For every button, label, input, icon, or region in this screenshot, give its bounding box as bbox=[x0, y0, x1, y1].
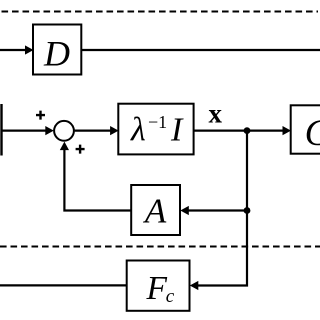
svg-text:D: D bbox=[43, 34, 70, 74]
svg-text:c: c bbox=[166, 286, 175, 307]
svg-text:λ: λ bbox=[130, 112, 146, 149]
svg-text:F: F bbox=[146, 270, 168, 307]
svg-text:A: A bbox=[143, 192, 167, 231]
svg-text:x: x bbox=[209, 98, 223, 128]
svg-text:I: I bbox=[170, 112, 184, 149]
svg-text:C: C bbox=[305, 113, 320, 154]
svg-text:−1: −1 bbox=[148, 112, 167, 132]
